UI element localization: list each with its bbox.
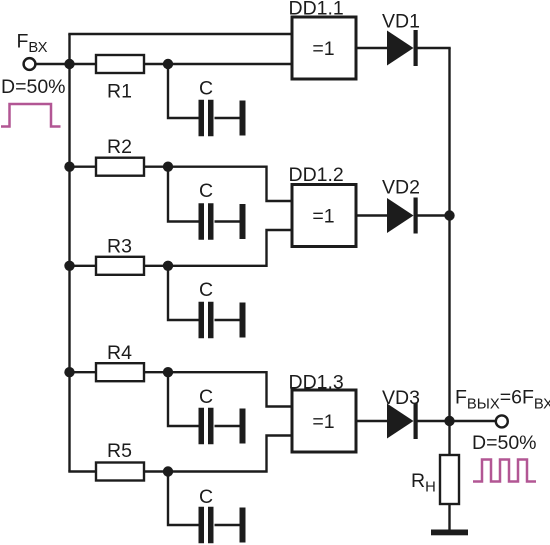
wire C2 from R2 node [168, 167, 199, 222]
svg-text:R5: R5 [107, 440, 132, 462]
diode VD2 [387, 198, 418, 234]
capacitor C3 [199, 302, 214, 339]
wire R4 to DD1.3 input 1 [144, 372, 292, 406]
ground bar C3 [240, 303, 246, 338]
svg-text:R4: R4 [107, 342, 132, 364]
svg-text:C: C [199, 386, 213, 408]
node: output junction [444, 416, 454, 426]
wire left bus [68, 34, 70, 472]
capacitor C4 [199, 408, 214, 445]
wire left bus to R4 [70, 371, 97, 373]
output square wave D=50% [473, 460, 536, 482]
node: R2-C2 junction [163, 162, 173, 172]
node: R1-C1 junction [163, 59, 173, 69]
wire VD3 to output node [418, 420, 450, 422]
svg-text:C: C [199, 180, 213, 202]
wire R2 to DD1.2 input 1 [144, 167, 292, 201]
svg-text:=1: =1 [312, 411, 334, 433]
capacitor C5 [199, 507, 214, 544]
wire top (left bus to DD1.1 input 1) [68, 33, 292, 35]
svg-text:C: C [199, 486, 213, 508]
svg-text:DD1.1: DD1.1 [289, 0, 344, 20]
ground bar C4 [240, 409, 246, 444]
capacitor C2 [199, 203, 214, 240]
resistor R2 [96, 158, 144, 176]
wire C4 to ground bar [215, 425, 240, 427]
resistor RН (load) [440, 455, 459, 504]
ground bar C5 [240, 508, 246, 543]
svg-text:VD2: VD2 [382, 177, 420, 199]
svg-text:=1: =1 [312, 38, 334, 60]
resistor R1 [96, 55, 144, 73]
wire VD1 to right bus [418, 47, 451, 49]
wire R3 to DD1.2 input 2 [144, 230, 292, 266]
XOR gate DD1.1 [292, 17, 356, 79]
input pulse waveform D=50% [1, 104, 61, 127]
wire VD2 to right bus [418, 214, 450, 216]
ground bar C2 [240, 204, 246, 239]
output terminal Fвых [496, 415, 508, 427]
node: bus-R1 junction [64, 59, 74, 69]
svg-text:VD3: VD3 [382, 387, 420, 409]
node: R4-C4 junction [163, 367, 173, 377]
wire left bus to R3 [70, 265, 97, 267]
svg-text:C: C [199, 279, 213, 301]
wire R1 to DD1.1 input 2 [144, 63, 292, 65]
wire C4 from R4 node [168, 372, 199, 426]
wire C2 to ground bar [215, 220, 240, 222]
svg-text:R2: R2 [107, 136, 132, 158]
wire input terminal to left bus [35, 63, 70, 65]
svg-text:DD1.3: DD1.3 [289, 372, 344, 394]
resistor R5 [96, 463, 144, 481]
node: VD2 output junction [444, 210, 454, 220]
svg-text:D=50%: D=50% [472, 432, 537, 454]
resistor R3 [96, 257, 144, 275]
wire output node to output terminal [450, 420, 497, 422]
svg-text:=1: =1 [312, 206, 334, 228]
svg-text:D=50%: D=50% [1, 76, 66, 98]
wire DD1.1 output to VD1 [356, 47, 388, 49]
capacitor C1 [199, 100, 214, 137]
svg-text:VD1: VD1 [382, 11, 420, 33]
wire left bus to R1 [70, 63, 97, 65]
XOR gate DD1.2 [292, 185, 356, 247]
svg-text:FВЫХ=6FВХ: FВЫХ=6FВХ [455, 387, 550, 413]
resistor R4 [96, 363, 144, 381]
svg-text:R3: R3 [107, 236, 132, 258]
wire DD1.2 output to VD2 [356, 214, 388, 216]
input terminal Fвх [24, 58, 36, 70]
node: R5-C5 junction [163, 466, 173, 476]
wire C1 from R1 node [168, 64, 199, 118]
wire C5 from R5 node [168, 472, 199, 526]
svg-text:RН: RН [411, 470, 436, 496]
wire RH to ground [448, 504, 450, 530]
wire C3 to ground bar [215, 319, 240, 321]
XOR gate DD1.3 [292, 390, 356, 452]
wire C5 to ground bar [215, 524, 240, 526]
node: bus-R4 junction [64, 367, 74, 377]
wire left bus to R2 [70, 165, 97, 167]
wire right bus [448, 48, 450, 455]
wire C3 from R3 node [168, 266, 199, 320]
svg-text:C: C [199, 78, 213, 100]
diode VD1 [387, 30, 418, 66]
diode VD3 [387, 403, 418, 439]
wire left bus bottom to R5 [68, 470, 96, 472]
wire DD1.3 output to VD3 [356, 420, 388, 422]
node: bus-R2 junction [64, 162, 74, 172]
node: bus-R3 junction [64, 261, 74, 271]
node: R3-C3 junction [163, 261, 173, 271]
wire R5 to DD1.3 input 2 [144, 436, 292, 472]
svg-text:DD1.2: DD1.2 [289, 164, 344, 186]
svg-text:R1: R1 [107, 81, 132, 103]
ground bar C1 [240, 101, 246, 136]
ground [431, 530, 468, 536]
svg-text:FВХ: FВХ [17, 31, 48, 57]
wire C1 to ground bar [215, 117, 240, 119]
